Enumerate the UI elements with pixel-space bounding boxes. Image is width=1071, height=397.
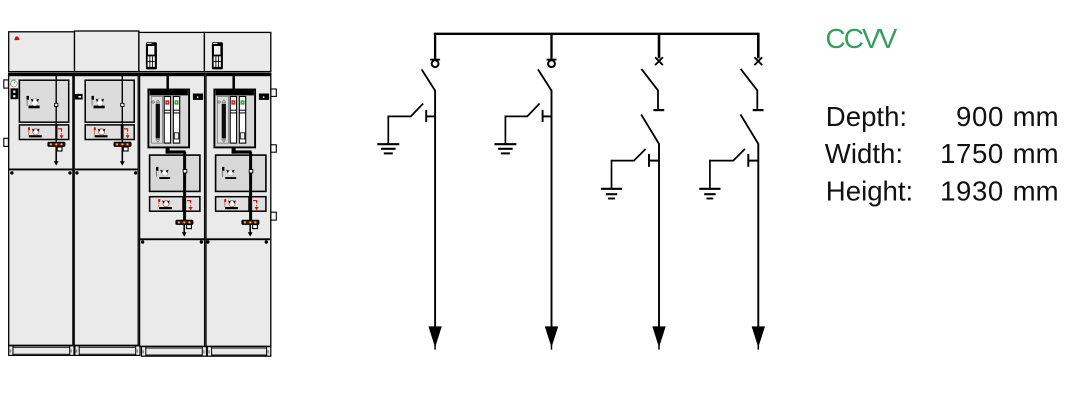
ground 3 xyxy=(601,188,622,190)
cable bar panel 4 xyxy=(241,220,259,225)
section line panel 4 xyxy=(207,238,271,240)
cable bar panel 2 xyxy=(114,142,132,147)
plinth panel3 xyxy=(142,347,207,357)
red arrow glyph panel 2 xyxy=(124,129,128,135)
red switch glyph panel 2 xyxy=(94,127,108,137)
circuit breaker Q3 (open, with cross terminal) xyxy=(655,57,663,65)
panel bodies xyxy=(9,73,73,345)
red arrow glyph panel 4 xyxy=(253,201,257,207)
switch-disconnector Q1 (open) xyxy=(430,59,440,61)
wire: busbar drop to Q2 xyxy=(550,33,552,59)
interlock box panel 2 xyxy=(75,94,83,100)
plinth panel1 xyxy=(9,346,74,356)
switch glyph panel 2 xyxy=(92,96,105,108)
svg-text:mm: mm xyxy=(1013,175,1059,206)
svg-text:Width:: Width: xyxy=(825,138,903,169)
disconnector Q4a (open) xyxy=(741,115,759,144)
switch glyph xyxy=(27,96,40,108)
operation boxes panel 4 xyxy=(216,197,249,212)
wire: ES4 to ground 4 xyxy=(710,160,734,162)
svg-text:mm: mm xyxy=(1013,101,1059,132)
cable outlet arrow feeder 1 xyxy=(428,326,441,347)
ground 2 xyxy=(494,143,516,145)
riser line panel 2 xyxy=(121,73,123,142)
wire: Q4a to cable outlet 4 xyxy=(757,144,759,329)
wire: busbar drop to Q4 xyxy=(757,33,760,58)
cable outlet arrow feeder 2 xyxy=(545,326,558,347)
cable outlet arrow feeder 4 xyxy=(752,326,765,347)
relay device panel 3 xyxy=(146,42,157,69)
down arrow panel 2 xyxy=(121,147,123,163)
earthing switch ES3 xyxy=(648,154,650,167)
cabinet front view group xyxy=(4,31,277,356)
section line xyxy=(9,169,72,171)
hinges right xyxy=(271,89,276,96)
operation boxes panel 2 xyxy=(85,125,121,140)
switch-disconnector Q2 (open) xyxy=(547,59,557,61)
wire: busbar drop to Q1 xyxy=(434,33,436,59)
disconnector Q3a (open) xyxy=(641,115,659,144)
cable bar xyxy=(175,220,193,225)
black box xyxy=(11,88,19,99)
connector to lower panel 4 xyxy=(232,147,236,153)
cable bar xyxy=(47,142,65,147)
riser line xyxy=(55,73,57,142)
cable outlet arrow feeder 3 xyxy=(652,326,665,347)
thick roof band xyxy=(9,73,73,76)
breaker compartment xyxy=(166,73,169,91)
label box xyxy=(193,94,203,100)
white sq under bar panel 2 xyxy=(123,147,128,151)
earthing switch ES1 xyxy=(425,110,427,122)
connector to lower xyxy=(166,147,170,153)
down line + arrow xyxy=(55,147,57,163)
wire: ES3 to ground 3 xyxy=(612,160,635,162)
svg-text:mm: mm xyxy=(1013,138,1059,169)
wire: ES2 to ground 2 xyxy=(505,115,528,117)
ground 1 xyxy=(377,143,399,145)
relay device panel 4 xyxy=(212,42,223,69)
busbar xyxy=(434,33,760,35)
top LV boxes xyxy=(9,32,75,72)
earthing switch ES2 xyxy=(542,110,544,122)
red switch glyph panel 4 xyxy=(224,199,238,209)
hinges left xyxy=(4,80,9,88)
wire: Q1 to cable outlet 1 xyxy=(434,90,436,328)
breaker compartment panel 4 xyxy=(232,73,235,91)
earthing switch ES4 xyxy=(747,154,749,167)
label box panel 4 xyxy=(259,94,269,100)
mimic box xyxy=(150,155,200,191)
white sq under bar xyxy=(57,147,62,151)
wire: busbar drop to Q3 xyxy=(658,33,661,58)
plinth panel2 xyxy=(75,346,140,356)
mimic box panel 2 xyxy=(85,80,134,122)
red boxes xyxy=(150,197,183,212)
section line panel 2 xyxy=(75,169,138,171)
svg-text:Height:: Height: xyxy=(826,175,913,206)
plinth panel4 xyxy=(207,347,270,357)
svg-text:CCVV: CCVV xyxy=(826,23,898,54)
wire: Q2 to cable outlet 2 xyxy=(551,90,553,328)
svg-text:900: 900 xyxy=(956,101,1004,132)
red logo mark xyxy=(14,36,19,40)
wire: Q3a to cable outlet 3 xyxy=(658,144,660,329)
ground 4 xyxy=(699,188,720,190)
contact square panel 2 xyxy=(121,103,124,106)
svg-text:1930: 1930 xyxy=(940,175,1004,206)
mimic box panel 4 xyxy=(216,155,266,191)
mimic box xyxy=(19,80,68,122)
contact square on riser xyxy=(55,103,58,106)
gauge xyxy=(10,79,19,88)
wire: ES1 to ground 1 xyxy=(388,115,411,117)
section line xyxy=(140,238,204,240)
circuit breaker Q4 (open, with cross terminal) xyxy=(754,57,762,65)
svg-text:Depth:: Depth: xyxy=(826,101,907,132)
red boxes row xyxy=(19,125,56,140)
svg-text:1750: 1750 xyxy=(940,138,1004,169)
